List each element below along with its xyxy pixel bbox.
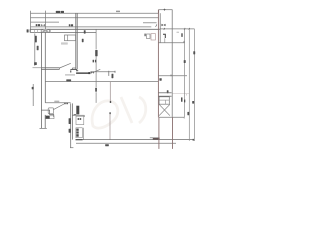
extension x158.7 — [158, 10, 160, 14]
flue X — [159, 104, 170, 115]
cistern divider — [67, 35, 69, 41]
right wall main vertical — [157, 10, 159, 118]
left wall inner lower segment — [44, 115, 46, 128]
stair horizontal y42.8 — [158, 42, 184, 44]
flue divider horizontal — [159, 99, 169, 101]
end tick lower wall — [114, 71, 116, 73]
dark threshold segment — [153, 138, 160, 139]
counter step — [83, 115, 85, 117]
top wall left cap — [29, 29, 31, 32]
dark pier — [76, 106, 79, 115]
top wall inner face — [30, 31, 96, 33]
extension x45.4 — [44, 11, 46, 30]
wall jamb ticks — [35, 29, 51, 32]
tick on faint line — [186, 94, 188, 96]
shaft left wall — [158, 117, 160, 149]
faint line y93.7 right — [173, 93, 190, 95]
bathroom label faint — [61, 42, 68, 44]
gray text above dim — [54, 101, 59, 103]
left dim bottom arrow — [34, 62, 37, 65]
dim text gray top — [116, 11, 120, 13]
rotated text x112 — [112, 74, 114, 78]
top wall outer face — [30, 28, 160, 30]
vertical x164.8 short — [164, 38, 166, 43]
dark jamb at bar end — [88, 72, 90, 74]
shaft right wall — [172, 117, 174, 149]
junction dot bottom right — [193, 139, 195, 141]
short wall line above bottom right — [150, 137, 160, 139]
stair horizontal y75.8 — [158, 75, 187, 77]
cross ticks at opening — [91, 72, 94, 74]
tick cross on D0 — [163, 9, 165, 11]
vent box dark fill — [46, 116, 50, 119]
wall segment y92.8 — [158, 92, 171, 94]
rotated text on 184.6 lower — [184, 100, 185, 103]
wall A bracket vertical — [71, 68, 73, 69]
dark tip text upper — [110, 101, 111, 103]
dim text 5.48 left — [36, 24, 38, 26]
dark tick left of counter — [74, 114, 77, 115]
tick at 171 — [170, 75, 172, 77]
mid dim text dark — [66, 79, 71, 81]
dim line D0 top-right — [159, 9, 173, 11]
wall step polyline — [41, 110, 53, 117]
dim text 5.48 second — [69, 24, 71, 26]
stub dim tick extension — [33, 67, 42, 69]
kitchen wall line x70.7 — [70, 103, 72, 147]
jamb vertical x108.8 — [108, 71, 110, 76]
toilet cistern rect — [65, 35, 76, 41]
dim dot pair — [93, 60, 94, 63]
dim line D3a — [31, 21, 60, 23]
shaft top line y117.2 — [159, 116, 184, 118]
bottom wall long line — [76, 139, 194, 141]
wall A bottom bracket — [72, 67, 76, 69]
rotated dim text below D5 — [181, 33, 182, 37]
vertical dim x33 with arrow — [32, 84, 34, 106]
bottom dim text — [105, 144, 109, 146]
door diagonal kitchen — [53, 104, 64, 110]
flue rect R1 — [159, 97, 169, 104]
mid dim line — [45, 81, 158, 83]
wall A line 1 — [75, 13, 77, 69]
stove box — [76, 116, 84, 124]
door jamb small dark — [70, 70, 71, 72]
left dim rotated text 1 — [35, 36, 37, 43]
left vertical dim line — [34, 34, 36, 66]
reddish square — [151, 34, 155, 40]
bowtie symbol — [162, 24, 166, 26]
sink cells dark — [76, 129, 78, 131]
dark arrow marks — [64, 103, 66, 105]
lower wall thin line over opening — [90, 71, 115, 73]
rotated text on x96 lower — [95, 88, 97, 92]
rotated text on 194.4 upper — [193, 51, 195, 54]
rotated dim text kitchen 2 — [69, 129, 71, 133]
dim line D4 — [31, 26, 152, 28]
dark rotated text above wall seg — [167, 90, 169, 93]
counter edge x83.4 — [82, 128, 84, 140]
dim tick marks after 5.48 — [41, 24, 44, 26]
tick up at 184 — [183, 41, 185, 43]
rotated text on 194.4 lower — [192, 101, 194, 104]
wall stub end cap — [59, 68, 61, 70]
dim line D2 — [31, 17, 159, 19]
burner dots — [78, 118, 80, 120]
dark glyph right — [163, 34, 165, 38]
wall A line 2 — [76, 13, 78, 69]
gray square — [147, 34, 151, 39]
right wall second line — [159, 13, 161, 43]
wall stub room divider upper line — [41, 67, 59, 69]
left wall inner face — [44, 32, 46, 102]
window X-box in top wall — [41, 29, 49, 32]
flue divider vertical — [165, 100, 167, 104]
dark text below y75.8 — [159, 78, 161, 81]
rotated text x181.7 — [181, 97, 183, 101]
rotated dim text right of wall A upper — [84, 30, 86, 33]
vertical line x110 lower — [109, 114, 111, 139]
counter line y115.3 — [72, 114, 84, 116]
mid gray label above — [65, 74, 75, 76]
rotated text on 184.6 upper — [184, 60, 186, 63]
rotated dim text kitchen 1 — [69, 118, 71, 124]
rotated dim text right of wall A lower — [82, 39, 84, 42]
tick down at 184.2 — [183, 117, 185, 118]
lower wall thick dark bar — [76, 72, 90, 74]
dark tip text lower — [109, 112, 110, 114]
small dark tick left of squares — [145, 34, 146, 37]
door leaf lower wall — [94, 69, 100, 72]
kitchen wall line x72.4 — [71, 103, 73, 139]
door leaf room1 — [60, 63, 71, 68]
pier top dark — [76, 70, 78, 71]
bottom dim line — [76, 142, 176, 144]
right dim vertical x184.6 — [184, 29, 186, 117]
vertical line x110 upper — [109, 82, 111, 101]
right dim vertical x194.4 — [193, 29, 195, 141]
rotated text left of wall — [27, 29, 29, 32]
rotated text on x96 upper — [95, 50, 97, 56]
dim text 14.60 — [56, 11, 61, 13]
left extension line — [30, 11, 32, 33]
right dim vertical x189.3 — [188, 29, 190, 141]
rounded fixture box — [48, 108, 53, 114]
wall A bottom cap dark — [70, 68, 77, 71]
D3b end tick — [156, 24, 157, 27]
corner vertical x172.2 — [171, 10, 173, 117]
bottom wall dark segment — [76, 139, 83, 140]
sink box — [76, 128, 82, 138]
left dim rotated text 2 — [37, 46, 39, 51]
left wall bottom tick — [40, 127, 47, 129]
left wall outer face — [40, 32, 42, 128]
arrow text on x33 — [32, 87, 34, 90]
watermark — [92, 97, 146, 128]
faint gray text below D5 — [177, 32, 180, 33]
dim line y102.7 — [45, 102, 70, 104]
dim line D3b — [143, 22, 157, 24]
wall stub lower line — [41, 68, 59, 70]
ticks on D5 — [164, 28, 190, 30]
vent box — [46, 116, 54, 119]
rotated text on 189.3 — [187, 112, 189, 115]
dim line D1 top — [31, 12, 159, 14]
dim line D5 right — [160, 28, 195, 30]
wall segment y96.2 — [158, 95, 171, 97]
vertical dim x96 — [95, 30, 97, 103]
bottom L tick — [70, 147, 73, 149]
